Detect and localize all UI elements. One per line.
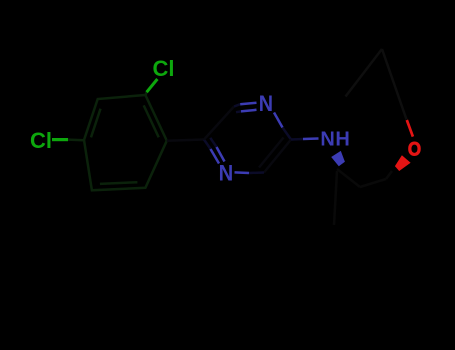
pyrazine bond C6=N1 double, blue halves near N1 xyxy=(240,103,256,112)
wire: ring bond stub to C2' (dark, nearly invisible) xyxy=(386,171,392,179)
svg-text:N: N xyxy=(219,161,234,186)
wire: bond C2 to amine N, blue half xyxy=(303,137,319,140)
wire: pyrazine bond C2=C3 outer line (dark carbon) xyxy=(264,140,291,173)
svg-text:N: N xyxy=(259,91,273,116)
wire: upper bridge bond, left leg (dark carbon) xyxy=(346,49,383,97)
svg-text:O: O xyxy=(408,138,421,160)
benzene ring outline (2,4-dichlorophenyl), very dark skeleton xyxy=(84,95,167,190)
wire: C-Cl bond chlorine half (2-position, green) xyxy=(147,79,158,92)
wedge bond NH to ring carbon C1' (blue filled wedge) xyxy=(331,151,345,166)
wire: pyrazine bond N1-C2 blue half xyxy=(274,113,283,128)
wire: ring bond up to C2' (dark, nearly invisible) xyxy=(360,179,386,187)
wire: pyrazine bond C5-C6 (dark carbon) xyxy=(204,107,234,140)
wire: pyrazine bond C3-N4 dark half xyxy=(249,171,264,174)
benzene inner double-bond line (upper left edge) xyxy=(91,109,101,138)
wire: pyrazine bond C2=C3 inner line (dark carbon) xyxy=(259,138,284,168)
wire: upper bridge bond, right leg down to O (dark carbon) xyxy=(382,49,407,120)
svg-text:NH: NH xyxy=(320,128,350,150)
wire: ring bond C1' downward (dark, nearly invisible) xyxy=(334,171,337,225)
wire: C-Cl bond carbon half (4-position) xyxy=(68,138,84,141)
wire: ring bond C1' down-right (dark, nearly invisible) xyxy=(337,169,360,187)
benzene inner double-bond line (upper right edge) xyxy=(144,105,159,137)
svg-text:Cl: Cl xyxy=(30,128,52,153)
wire: bond C2 to amine N, dark half xyxy=(291,138,303,141)
wire: pyrazine bond N1-C2 dark half xyxy=(283,128,292,140)
wire: C-Cl bond chlorine half (4-position, green) xyxy=(52,138,68,141)
pyrazine bond C6=N1 double, dark halves near C6 xyxy=(234,104,241,112)
pyrazine bond C5=N4 double, dark halves near C5 xyxy=(204,138,217,149)
wire: bond phenyl C1 to pyrazine C5 (dark carbon) xyxy=(167,140,204,141)
svg-text:Cl: Cl xyxy=(153,56,175,81)
wire: C-Cl bond carbon half (2-position) xyxy=(145,92,146,95)
wire: O-CH3 bond oxygen half (red) xyxy=(407,120,413,137)
benzene inner double-bond line (bottom edge) xyxy=(100,182,137,184)
wire: pyrazine bond C3-N4 blue half xyxy=(235,171,250,174)
wedge bond C2' to O (red filled wedge) xyxy=(395,155,411,171)
pyrazine bond C5=N4 double, blue halves near N4 xyxy=(211,147,225,164)
